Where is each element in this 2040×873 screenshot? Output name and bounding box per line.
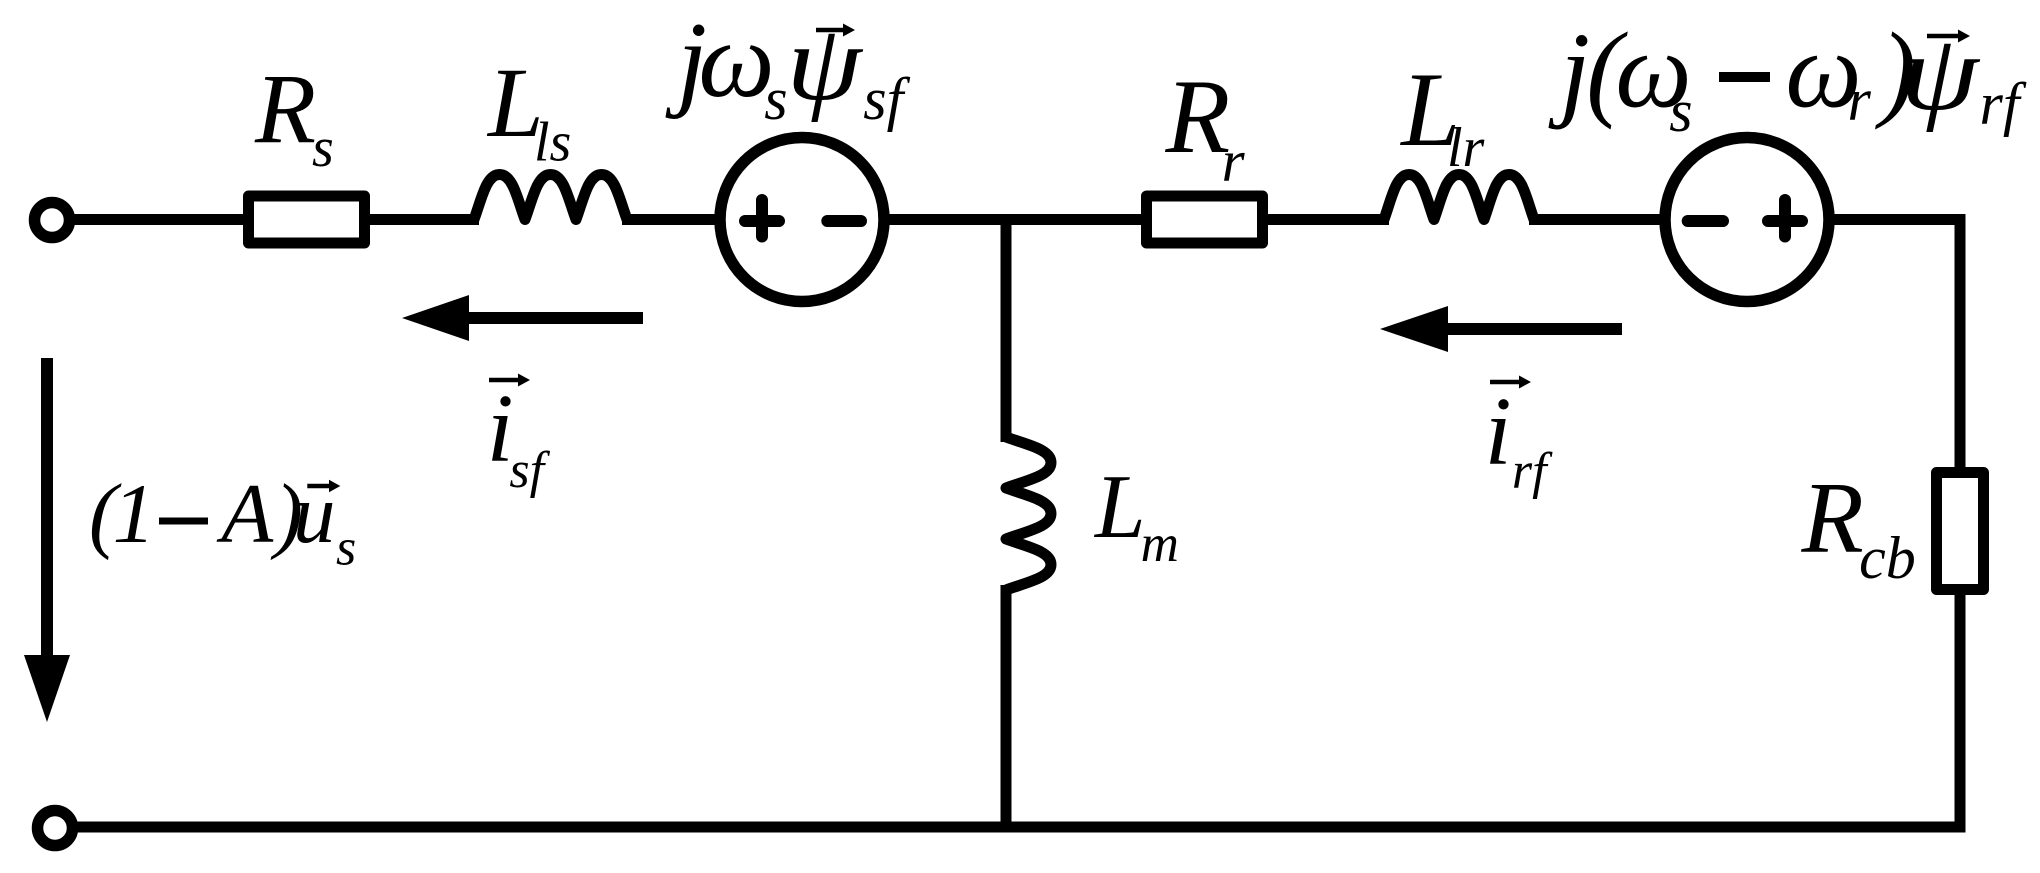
svg-text:ψ: ψ — [1901, 14, 1981, 133]
U1 minus sign — [827, 215, 861, 227]
resistor R_cb box — [1937, 473, 1984, 590]
svg-text:cb: cb — [1859, 525, 1916, 591]
vector arrow over i_sf — [489, 378, 522, 383]
voltage arrow (1-A)us — [41, 358, 53, 660]
svg-text:R: R — [1801, 462, 1864, 575]
svg-text:s: s — [336, 520, 356, 577]
svg-text:s: s — [312, 117, 334, 179]
svg-text:r: r — [1848, 67, 1872, 133]
resistor R_r box — [1147, 196, 1263, 243]
U2 minus sign — [1688, 215, 1723, 227]
vector arrow over u_s — [307, 484, 333, 489]
svg-text:r: r — [1222, 128, 1246, 194]
wire top rail left — [66, 214, 479, 225]
svg-text:1: 1 — [113, 467, 156, 561]
wire middle branch lower — [1001, 585, 1012, 832]
voltage source U2 circle — [1665, 138, 1829, 302]
svg-text:R: R — [254, 53, 316, 164]
svg-text:i: i — [1485, 378, 1512, 485]
vector arrow over i_rf — [1490, 380, 1523, 385]
wire top rail right, right side, bottom rail — [66, 220, 1960, 828]
wire middle branch upper — [1001, 214, 1012, 442]
svg-text:R: R — [1165, 58, 1231, 175]
vector arrow over psi_sf — [816, 28, 847, 33]
svg-text:ls: ls — [534, 112, 571, 174]
voltage source U1 circle — [720, 138, 884, 302]
current arrow i_sf — [462, 312, 643, 324]
terminal top-left — [35, 203, 70, 238]
svg-text:L: L — [1093, 456, 1146, 557]
svg-text:ψ: ψ — [787, 4, 864, 123]
vector arrow over psi_rf — [1927, 34, 1962, 39]
U2 plus sign — [1768, 200, 1802, 237]
svg-text:s: s — [1669, 78, 1692, 144]
svg-text:A: A — [216, 467, 274, 561]
svg-text:ω: ω — [698, 1, 774, 120]
svg-text:s: s — [764, 66, 787, 132]
wire top rail middle — [622, 214, 1389, 225]
inductor L_lr coil — [1384, 175, 1534, 220]
inductor L_m coil — [1006, 437, 1051, 590]
inductor L_ls coil — [474, 175, 627, 220]
U1 plus sign — [745, 200, 779, 237]
current arrow i_rf — [1441, 323, 1622, 335]
resistor R_s box — [249, 196, 365, 243]
terminal bottom-left — [38, 811, 73, 846]
svg-text:m: m — [1141, 515, 1179, 573]
svg-text:lr: lr — [1447, 117, 1485, 179]
